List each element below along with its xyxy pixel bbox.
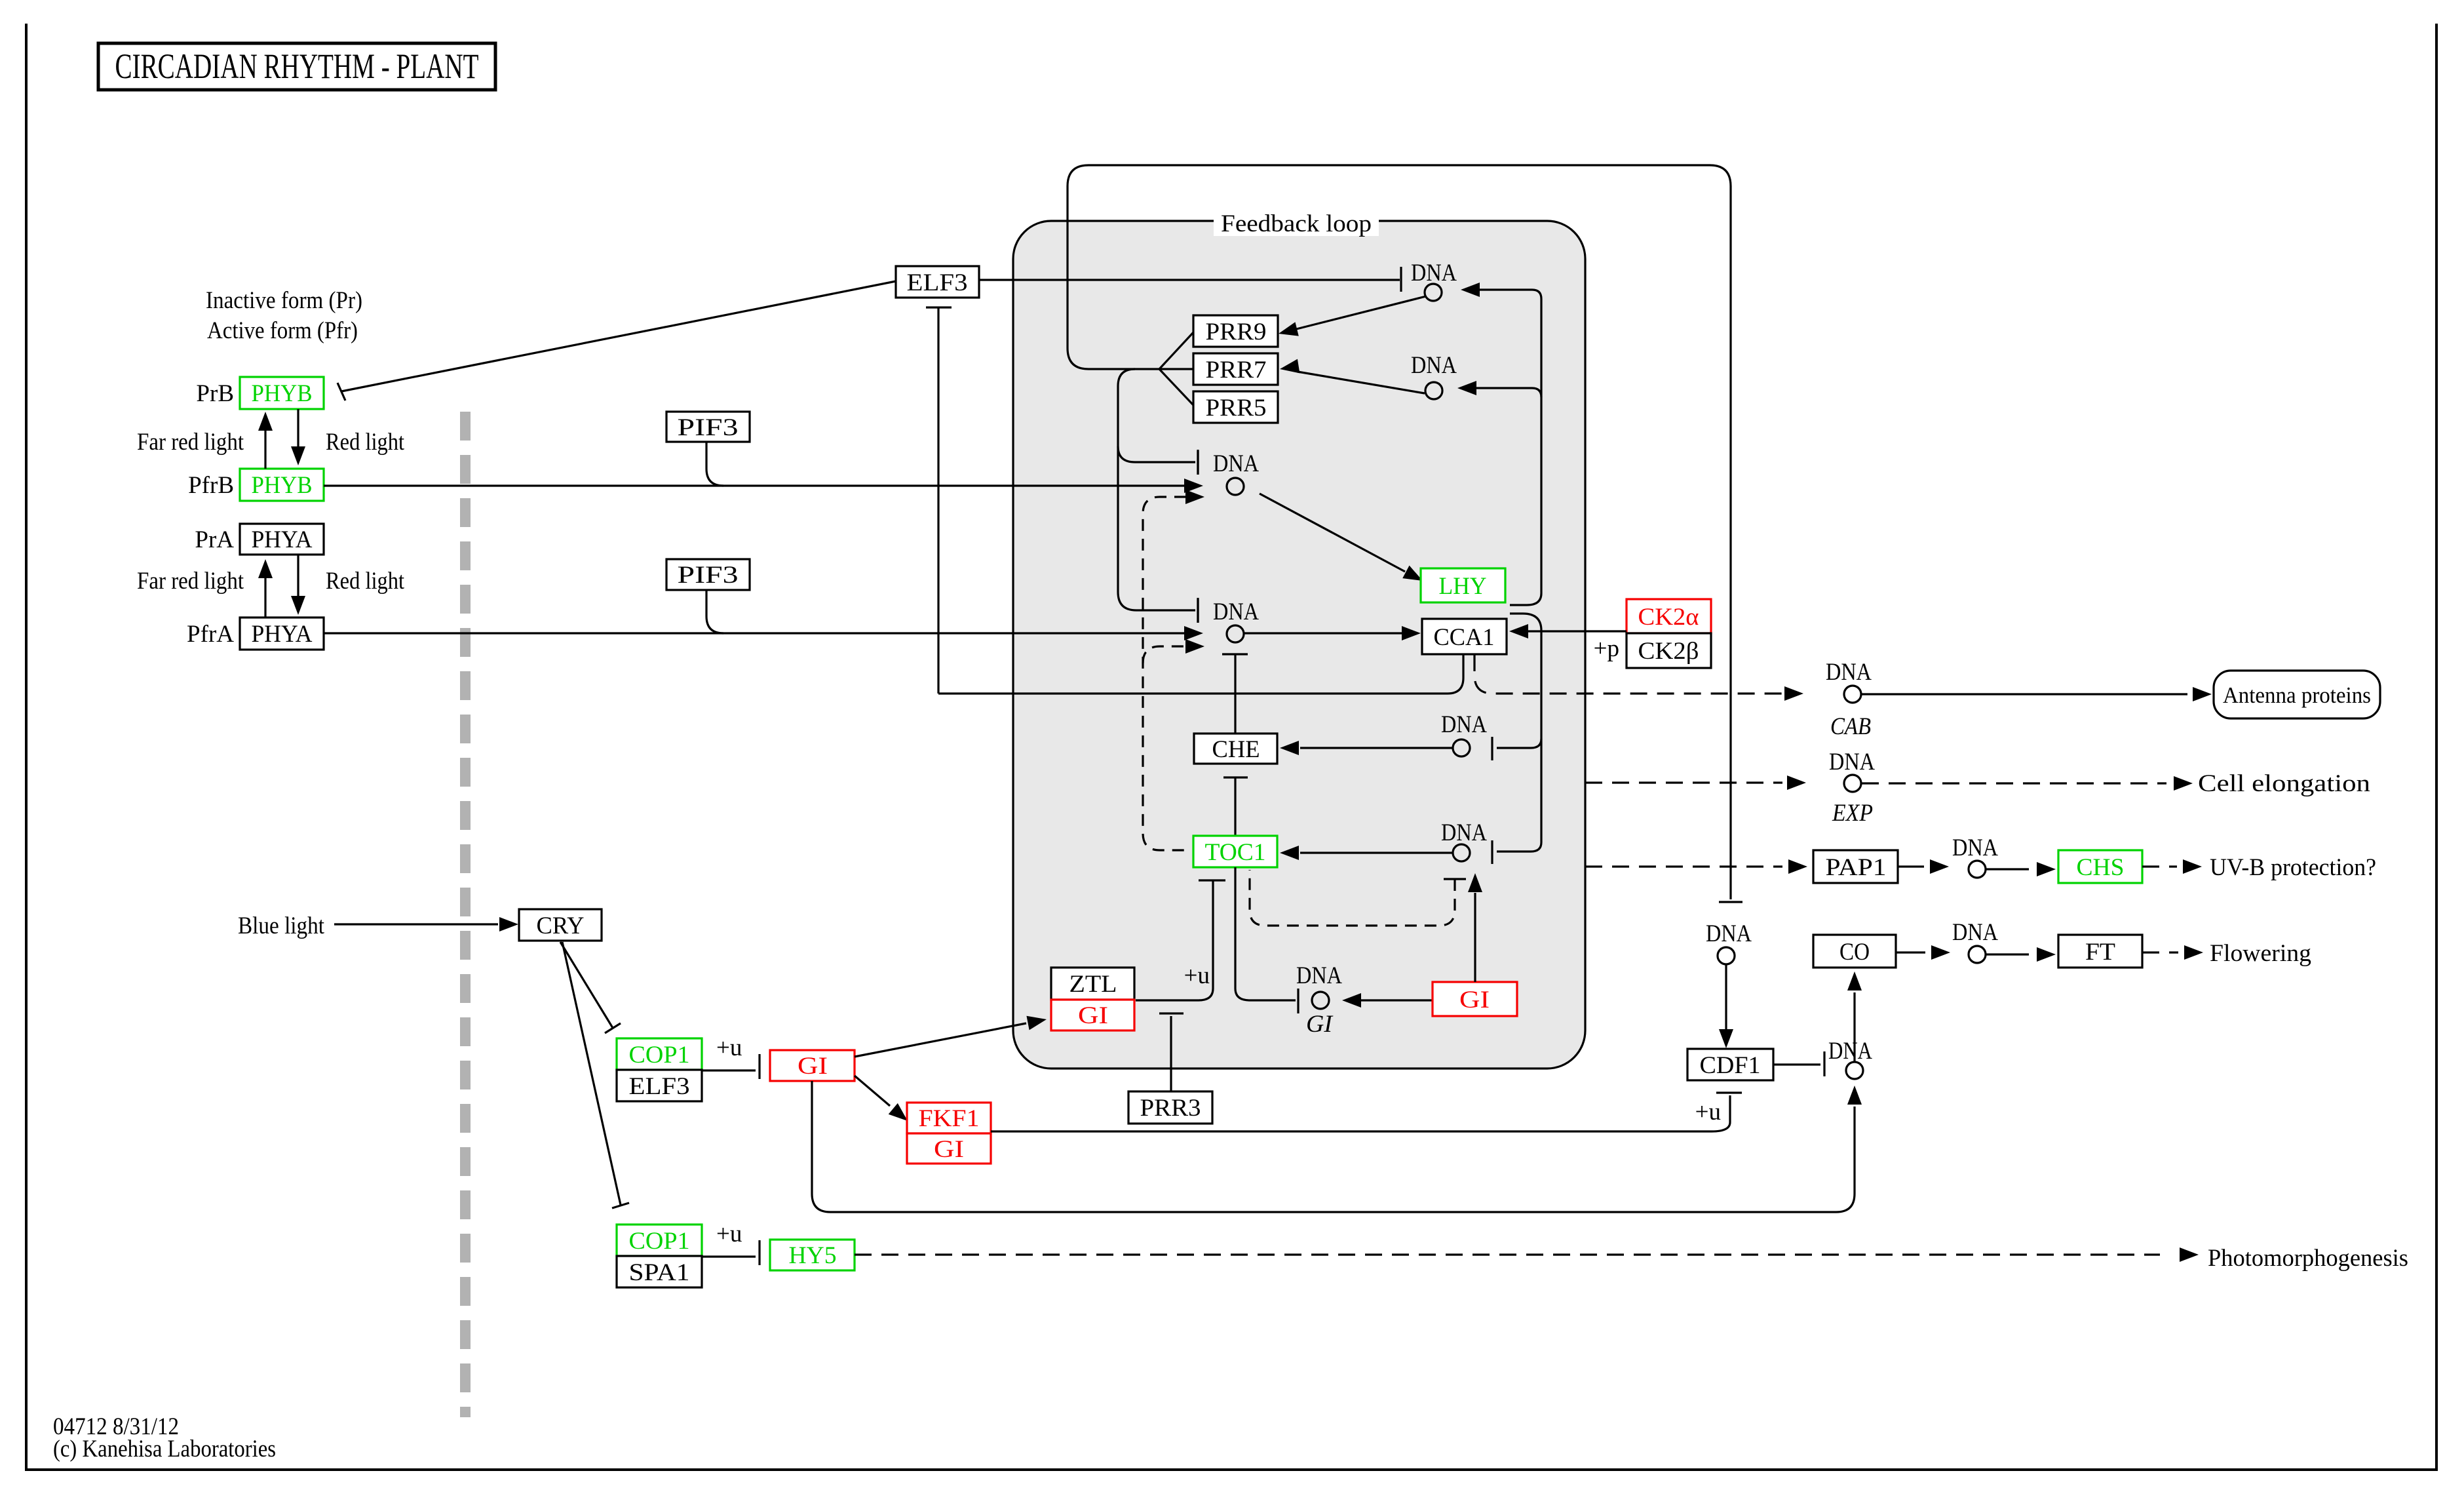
svg-text:COP1: COP1 xyxy=(629,1228,690,1255)
svg-text:PIF3: PIF3 xyxy=(678,414,739,441)
svg-text:DNA: DNA xyxy=(1952,834,1998,861)
svg-text:Red light: Red light xyxy=(326,429,405,456)
svg-text:PfrB: PfrB xyxy=(188,472,234,499)
svg-text:DNA: DNA xyxy=(1441,711,1487,738)
svg-text:PrA: PrA xyxy=(195,526,234,553)
svg-text:CCA1: CCA1 xyxy=(1434,624,1495,651)
svg-text:+u: +u xyxy=(716,1034,742,1061)
svg-text:PRR3: PRR3 xyxy=(1140,1095,1201,1122)
svg-text:ELF3: ELF3 xyxy=(629,1073,690,1100)
svg-text:+p: +p xyxy=(1594,635,1619,662)
svg-text:GI: GI xyxy=(1306,1011,1334,1038)
svg-text:PHYB: PHYB xyxy=(252,380,313,407)
svg-text:+u: +u xyxy=(1184,962,1210,989)
svg-text:PRR7: PRR7 xyxy=(1206,357,1267,383)
svg-text:LHY: LHY xyxy=(1439,573,1487,600)
svg-text:GI: GI xyxy=(1078,1002,1108,1029)
svg-text:PRR5: PRR5 xyxy=(1206,395,1267,422)
svg-text:DNA: DNA xyxy=(1296,962,1342,989)
svg-text:DNA: DNA xyxy=(1213,598,1259,625)
svg-text:DNA: DNA xyxy=(1411,260,1457,286)
svg-text:CIRCADIAN RHYTHM - PLANT: CIRCADIAN RHYTHM - PLANT xyxy=(115,47,479,86)
svg-text:CK2α: CK2α xyxy=(1638,604,1699,631)
svg-text:GI: GI xyxy=(798,1053,828,1080)
svg-text:FKF1: FKF1 xyxy=(919,1105,980,1132)
svg-text:CK2β: CK2β xyxy=(1638,638,1699,665)
svg-text:DNA: DNA xyxy=(1828,1038,1872,1065)
svg-text:FT: FT xyxy=(2085,939,2115,966)
svg-text:CO: CO xyxy=(1839,939,1870,966)
svg-text:DNA: DNA xyxy=(1829,749,1875,775)
svg-text:Active form (Pfr): Active form (Pfr) xyxy=(207,317,358,344)
svg-text:PAP1: PAP1 xyxy=(1826,854,1887,881)
svg-text:GI: GI xyxy=(1459,987,1490,1013)
svg-text:DNA: DNA xyxy=(1441,819,1487,846)
svg-text:Far red light: Far red light xyxy=(137,568,244,595)
svg-text:ELF3: ELF3 xyxy=(907,269,968,296)
svg-text:PrB: PrB xyxy=(196,380,234,407)
svg-text:DNA: DNA xyxy=(1411,352,1457,379)
svg-text:HY5: HY5 xyxy=(789,1242,837,1269)
svg-text:(c) Kanehisa Laboratories: (c) Kanehisa Laboratories xyxy=(53,1436,276,1462)
svg-text:PHYA: PHYA xyxy=(252,526,313,553)
svg-text:DNA: DNA xyxy=(1952,919,1998,946)
svg-text:CDF1: CDF1 xyxy=(1700,1052,1761,1079)
svg-text:GI: GI xyxy=(934,1136,964,1163)
svg-text:Antenna proteins: Antenna proteins xyxy=(2223,682,2371,708)
svg-text:PHYA: PHYA xyxy=(252,621,313,648)
svg-text:Far red light: Far red light xyxy=(137,429,244,456)
svg-text:+u: +u xyxy=(716,1221,742,1247)
svg-text:CAB: CAB xyxy=(1830,713,1871,740)
svg-text:+u: +u xyxy=(1695,1099,1721,1126)
svg-text:PfrA: PfrA xyxy=(187,621,234,648)
svg-text:SPA1: SPA1 xyxy=(629,1259,690,1286)
svg-text:COP1: COP1 xyxy=(629,1042,690,1068)
svg-text:Inactive form (Pr): Inactive form (Pr) xyxy=(206,287,362,314)
svg-text:PRR9: PRR9 xyxy=(1206,319,1267,345)
svg-text:Photomorphogenesis: Photomorphogenesis xyxy=(2208,1245,2408,1272)
svg-text:ZTL: ZTL xyxy=(1069,971,1117,998)
svg-text:Red light: Red light xyxy=(326,568,405,595)
svg-text:Flowering: Flowering xyxy=(2210,940,2311,967)
svg-text:CRY: CRY xyxy=(537,912,585,939)
svg-text:PHYB: PHYB xyxy=(252,472,313,499)
svg-text:UV-B protection?: UV-B protection? xyxy=(2210,854,2376,881)
svg-text:Feedback loop: Feedback loop xyxy=(1221,210,1372,237)
svg-text:TOC1: TOC1 xyxy=(1205,839,1266,866)
svg-text:CHE: CHE xyxy=(1212,736,1260,763)
svg-text:PIF3: PIF3 xyxy=(678,562,739,589)
svg-text:Blue light: Blue light xyxy=(238,912,325,939)
svg-text:EXP: EXP xyxy=(1832,800,1873,827)
svg-text:DNA: DNA xyxy=(1706,920,1752,947)
svg-text:Cell elongation: Cell elongation xyxy=(2198,770,2370,797)
svg-text:DNA: DNA xyxy=(1213,450,1259,477)
svg-text:DNA: DNA xyxy=(1826,659,1872,686)
svg-text:CHS: CHS xyxy=(2077,854,2125,881)
